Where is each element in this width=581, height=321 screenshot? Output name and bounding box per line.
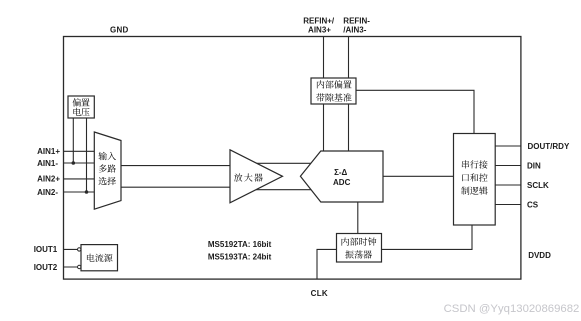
svg-text:/AIN3-: /AIN3- [343, 26, 366, 35]
wire AIN2+ pin to mux [64, 178, 96, 180]
svg-text:DOUT/RDY: DOUT/RDY [528, 142, 570, 151]
amplifier 放大器 [230, 150, 283, 203]
svg-text:ADC: ADC [333, 178, 351, 187]
wire serial logic to DOUT/RDY pin [495, 145, 521, 147]
wire bias voltage to AIN1- net [72, 117, 74, 163]
pin label CLK [311, 289, 328, 298]
wire oscillator to CLK pin [317, 249, 337, 279]
serial interface block 串行接口和控制逻辑 [454, 134, 496, 226]
wire IOUT1 pin to current source [64, 248, 82, 250]
svg-text:CLK: CLK [311, 289, 328, 298]
pin label AIN2+ [37, 175, 60, 184]
svg-text:AIN3+: AIN3+ [308, 26, 331, 35]
wire serial logic to DIN pin [495, 165, 521, 167]
pin label AIN1+ [37, 147, 60, 156]
svg-text:REFIN+/: REFIN+/ [303, 16, 335, 25]
IOUT1 terminal circle [78, 248, 81, 251]
junction dot on AIN2- [85, 190, 89, 194]
svg-text:CS: CS [527, 200, 539, 209]
svg-text:CSDN @Yyq13020869682: CSDN @Yyq13020869682 [444, 303, 580, 315]
svg-text:MS5192TA: 16bit: MS5192TA: 16bit [208, 240, 272, 249]
wire AIN2- pin to mux [64, 191, 96, 193]
bandgap reference block 内部偏置带隙基准 [311, 78, 356, 104]
clock oscillator block 内部时钟振荡器 [337, 234, 382, 263]
wire serial logic to SCLK pin [495, 184, 521, 186]
wire ADC to clock oscillator [357, 202, 359, 234]
svg-text:SCLK: SCLK [527, 181, 549, 190]
svg-text:AIN2+: AIN2+ [37, 175, 60, 184]
wire amplifier to ADC top [248, 162, 316, 164]
svg-text:DVDD: DVDD [528, 251, 551, 260]
svg-text:AIN2-: AIN2- [37, 188, 58, 197]
svg-text:IOUT1: IOUT1 [34, 245, 58, 254]
bias voltage block 偏置电压 [68, 96, 94, 118]
wire AIN1- pin to mux [64, 162, 96, 164]
pin label CS [527, 200, 539, 209]
svg-text:REFIN-: REFIN- [343, 16, 370, 25]
pin label REFIN+/AIN3+ [303, 16, 335, 34]
wire AIN1+ pin to mux [64, 150, 96, 152]
junction dot on AIN1- [72, 161, 76, 165]
pin label DVDD [528, 251, 551, 260]
watermark CSDN [444, 303, 580, 315]
pin label DOUT/RDY [528, 142, 570, 151]
input mux block 输入多路选择 [94, 132, 121, 209]
wire ADC to serial logic [383, 175, 454, 177]
svg-text:GND: GND [110, 25, 129, 34]
wire REFIN-/AIN3- pin to ADC [348, 37, 350, 153]
wire oscillator to serial logic [382, 225, 473, 249]
svg-text:AIN1-: AIN1- [37, 159, 58, 168]
IOUT2 terminal circle [78, 265, 81, 268]
sigma-delta ADC block [300, 151, 383, 202]
pin label GND [110, 25, 129, 34]
wire mux to amplifier top [120, 165, 231, 167]
pin label DIN [527, 161, 541, 170]
pin label IOUT1 [34, 245, 58, 254]
part number label MS5193TA 24bit [208, 252, 272, 261]
pin label SCLK [527, 181, 549, 190]
wire REFIN+/AIN3+ pin to ADC [323, 37, 325, 153]
current source block 电流源 [81, 245, 118, 271]
part number label MS5192TA 16bit [208, 240, 272, 249]
svg-text:AIN1+: AIN1+ [37, 147, 60, 156]
svg-text:IOUT2: IOUT2 [34, 263, 58, 272]
pin label IOUT2 [34, 263, 58, 272]
wire bias voltage to AIN2- net [86, 117, 88, 192]
wire serial logic to CS pin [495, 204, 521, 206]
svg-text:DIN: DIN [527, 161, 541, 170]
wire amplifier to ADC bottom [248, 189, 316, 191]
wire IOUT2 pin to current source [64, 266, 82, 268]
chip boundary rectangle [64, 37, 521, 280]
pin label REFIN-/AIN3- [343, 16, 370, 34]
wire mux to amplifier bottom [120, 186, 231, 188]
pin label AIN1- [37, 159, 58, 168]
svg-text:Σ-Δ: Σ-Δ [334, 168, 347, 177]
pin label AIN2- [37, 188, 58, 197]
wire bandgap reference to serial logic [356, 90, 474, 133]
svg-text:MS5193TA: 24bit: MS5193TA: 24bit [208, 252, 272, 261]
